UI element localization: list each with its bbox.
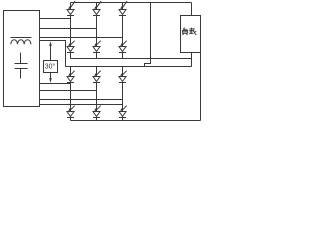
svg-text:30°: 30° [45,63,56,71]
